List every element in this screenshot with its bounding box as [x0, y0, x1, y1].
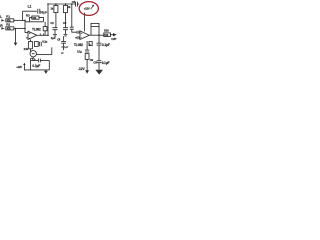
resistor R8 lead: [30, 39, 32, 41]
wire U1A output: [37, 34, 48, 36]
resistor R3: [32, 16, 39, 19]
wire to U1B minus input: [75, 37, 77, 39]
svg-text:-12V: -12V: [78, 67, 85, 71]
wire C2 lower lead: [54, 30, 56, 35]
wire -12V chain upper lead: [86, 41, 88, 50]
op-amp U1B: [80, 31, 89, 40]
feedback resistor R6: [91, 23, 99, 26]
op-amp U1B label: [74, 43, 83, 47]
wire +12V top rail: [48, 3, 75, 5]
resistor R5: [65, 4, 67, 5]
capacitor C10 value label: [102, 43, 110, 47]
wire feedback right: [98, 27, 100, 36]
capacitor C7 plates: [77, 36, 79, 39]
capacitor C6 plates: [77, 31, 79, 34]
wire rail lower: [98, 63, 100, 70]
resistor R1: [6, 19, 14, 22]
svg-text:510: 510: [104, 28, 109, 32]
svg-text:-: -: [29, 36, 30, 40]
capacitor C11 value label: [102, 61, 110, 65]
wire rail middle: [98, 45, 100, 61]
svg-text:R1: R1: [6, 14, 10, 18]
ground arrow right: [95, 70, 103, 75]
ground below C3: [64, 35, 68, 36]
wire C10 to right rail: [40, 60, 49, 62]
svg-text:+12V: +12V: [84, 6, 90, 10]
wire R3 left lead: [30, 18, 32, 22]
+12V label: [84, 6, 90, 10]
svg-text:+12V: +12V: [16, 65, 22, 69]
capacitor C3 label: [63, 21, 67, 25]
capacitor C8 plates: [61, 41, 66, 43]
wire minus input stub: [26, 37, 28, 39]
resistor R9: [85, 54, 89, 60]
red highlight ellipse: [79, 2, 98, 16]
junction node dots: [15, 3, 100, 36]
zener diode box: [89, 42, 92, 46]
svg-text:TL082: TL082: [74, 43, 83, 47]
svg-text:0.1μF: 0.1μF: [102, 61, 110, 65]
svg-text:0.1μF: 0.1μF: [102, 43, 110, 47]
wire -12V stem: [86, 59, 88, 70]
capacitor value 0.1uF label: [32, 64, 40, 68]
resistor R5 label: [68, 5, 71, 9]
wire CE to right: [36, 54, 51, 56]
capacitor C4 plates: [39, 42, 41, 46]
wire U1B output: [89, 34, 104, 36]
svg-text:0.1μ: 0.1μ: [42, 39, 47, 43]
bottom-left block right rail: [48, 61, 50, 70]
wire C5 stub: [77, 3, 79, 5]
capacitor C2 plates: [53, 28, 58, 30]
capacitor C10 plates: [97, 43, 102, 45]
resistor R3 label: [26, 14, 30, 18]
op-amp U1A: [28, 31, 37, 39]
svg-text:R2: R2: [6, 23, 10, 27]
svg-text:24k: 24k: [24, 47, 29, 51]
+12V supply arrow: [83, 13, 85, 32]
trimmer tap label: [61, 52, 64, 55]
svg-text:-: -: [81, 36, 82, 40]
resistor R1 label: [6, 14, 10, 18]
resistor R7: [104, 33, 111, 37]
svg-text:L: L: [0, 15, 2, 19]
wire R5 to C3: [65, 13, 67, 28]
wire top-left horizontal: [23, 10, 37, 12]
capacitor 2.2uF label: [61, 45, 68, 49]
output O/P label: [111, 37, 116, 41]
capacitor C4 value label: [42, 39, 47, 43]
wire branch B to capacitor: [63, 36, 65, 41]
wire top-left vertical drop: [22, 11, 24, 20]
node L input label: [0, 15, 2, 19]
junction ticks on U1A output: [40, 34, 43, 36]
ground below C2: [53, 35, 57, 36]
wire R4 to C2: [55, 13, 57, 28]
wire circle to block: [32, 57, 34, 58]
capacitor C4 box: [34, 42, 38, 47]
wire plus input: [25, 32, 28, 34]
wire +12V rail vertical: [47, 4, 49, 35]
wire R2 to node: [14, 27, 25, 29]
wire feedback left: [90, 27, 92, 36]
resistor R4 feedback: [44, 22, 46, 27]
svg-text:L1: L1: [28, 5, 32, 9]
+12V supply arrow bottom-left: [24, 65, 30, 70]
svg-text:1μF: 1μF: [51, 36, 56, 40]
capacitor C12 plates: [38, 59, 40, 63]
capacitor C8 designator label: [57, 38, 61, 41]
capacitor 0.1u label: [77, 50, 82, 54]
wire summing bus: [25, 21, 44, 23]
resistor R8 below U1A: [29, 42, 33, 49]
ground arrow bottom-left: [45, 70, 47, 71]
resistor R9 label: [90, 58, 94, 62]
resistor R2: [6, 27, 14, 30]
capacitor C8 lower lead: [63, 43, 65, 50]
-12V arrow head: [85, 70, 89, 73]
capacitor C3 plates: [63, 28, 68, 30]
wire R7 to output: [110, 34, 113, 36]
capacitor value 1uF label: [51, 36, 56, 40]
svg-text:2.2μF: 2.2μF: [61, 45, 68, 49]
wire CE lead: [30, 49, 32, 52]
capacitor C5 plates: [76, 2, 78, 7]
wire C3 lower lead: [65, 30, 67, 35]
resistor R8 label 24k: [24, 47, 29, 51]
-12V label: [78, 67, 85, 71]
svg-text:68μF: 68μF: [40, 10, 47, 14]
input terminal arrow L: [1, 19, 4, 21]
wire vertical right of CE: [51, 47, 53, 54]
wire from top rail down to C6: [71, 4, 73, 27]
output arrow: [113, 33, 117, 36]
bottom-left block left rail: [30, 58, 32, 70]
resistor R4: [55, 4, 57, 5]
wire joining input rows: [24, 20, 26, 32]
svg-text:O/P: O/P: [111, 37, 116, 41]
resistor R2 label: [6, 23, 10, 27]
op-amp U1A label: [32, 27, 41, 31]
capacitor C1 value label: [40, 10, 47, 14]
node R input label: [0, 24, 3, 28]
capacitor C2 label: [50, 21, 54, 25]
electrolytic cap CE circle: [30, 51, 36, 57]
svg-text:R3: R3: [26, 14, 30, 18]
ground arrow below R2: [15, 28, 17, 42]
+12V supply label bottom-left: [16, 65, 22, 69]
wire R3 right lead: [39, 18, 44, 22]
bottom-left block bottom wire: [31, 69, 50, 71]
resistor R7 label: [104, 28, 109, 32]
capacitor C1 plates: [38, 9, 40, 14]
capacitor C6a plates: [70, 27, 74, 29]
svg-text:TL082: TL082: [32, 27, 41, 31]
capacitor C13 plates: [85, 50, 89, 52]
capacitor C12 designator label: [32, 57, 36, 61]
capacitor C11 plates: [97, 61, 102, 63]
resistor R4 label: [50, 7, 53, 11]
svg-text:0.1μF: 0.1μF: [32, 64, 40, 68]
right decoupling rail: [98, 35, 100, 43]
input terminal arrow R: [1, 27, 4, 29]
capacitor C5 label: [72, 0, 76, 4]
wire to C12: [31, 60, 38, 62]
wire R1 to node: [14, 19, 25, 21]
wire C6a to U1B plus input: [72, 29, 77, 32]
svg-text:0.1μ: 0.1μ: [77, 50, 82, 54]
inductor L1 label: [28, 5, 32, 9]
